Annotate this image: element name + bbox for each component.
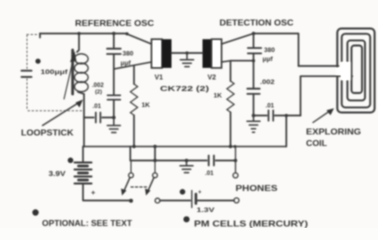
- svg-text:PHONES: PHONES: [236, 183, 278, 193]
- wire bus to phones rail: [129, 147, 131, 161]
- wire loopstick bottom lead: [78, 92, 84, 147]
- transistor V1: [152, 39, 163, 68]
- svg-text:(2): (2): [95, 89, 102, 95]
- capacitor C7 .01 series: [254, 115, 267, 117]
- svg-text:+: +: [91, 188, 96, 197]
- node junction: [112, 116, 116, 120]
- asterisk for C1: [35, 59, 40, 64]
- wire to exploring coil upper: [298, 34, 300, 67]
- node center: [185, 51, 188, 54]
- svg-text:DETECTION OSC: DETECTION OSC: [220, 18, 294, 28]
- node bus S1b riser: [153, 145, 156, 148]
- wire to exploring coil lower: [285, 116, 287, 147]
- asterisk for battery: [68, 158, 74, 164]
- capacitor C2 380uuf: [107, 49, 121, 54]
- wire rail to C2: [113, 34, 115, 48]
- svg-text:.002: .002: [260, 79, 275, 86]
- wire phones rail: [130, 160, 235, 162]
- asterisk for cell: [180, 189, 186, 195]
- resistor R1 1K: [133, 66, 135, 84]
- svg-text:.002: .002: [92, 83, 104, 89]
- coil L1 loopstick top lead: [77, 34, 79, 53]
- resistor R2 1K: [230, 61, 232, 81]
- coil L1 core: [71, 50, 74, 94]
- wire C3 to ground: [113, 100, 115, 117]
- node rail at C5: [252, 32, 255, 35]
- node rail S1b: [153, 159, 156, 162]
- svg-text:.01: .01: [266, 102, 275, 109]
- svg-text:.01: .01: [205, 170, 214, 177]
- node rail end: [125, 32, 128, 35]
- svg-text:380: 380: [123, 51, 134, 58]
- wire V1 upper lead: [127, 34, 152, 44]
- node on rail at loopstick: [77, 32, 80, 35]
- svg-text:OPTIONAL: SEE TEXT: OPTIONAL: SEE TEXT: [42, 218, 133, 228]
- wire C5 to C6: [253, 61, 255, 88]
- wire C6 down: [253, 95, 255, 116]
- wire top rail left: [40, 33, 127, 35]
- capacitor C8 .01 phones: [209, 156, 214, 166]
- wire S1b to cell: [160, 200, 190, 202]
- gap where leads enter: [341, 62, 351, 81]
- capacitor C5 380uuf: [253, 34, 255, 48]
- svg-text:COIL: COIL: [306, 139, 327, 148]
- svg-text:+: +: [198, 190, 202, 196]
- wire between V1 V2: [172, 52, 203, 54]
- wire C2 to C3: [113, 55, 115, 95]
- arrow from LOOPSTICK label: [43, 103, 80, 126]
- svg-text:1K: 1K: [142, 102, 151, 109]
- capacitor C4 .01 series: [84, 117, 94, 119]
- wire base node to cap column: [231, 60, 254, 62]
- svg-text:μμf: μμf: [263, 56, 274, 63]
- coil L1 slug arrow: [64, 58, 74, 99]
- svg-text:.01: .01: [93, 103, 102, 110]
- svg-text:REFERENCE OSC: REFERENCE OSC: [75, 18, 154, 28]
- svg-text:1K: 1K: [214, 92, 223, 99]
- node bus phones riser: [234, 145, 237, 148]
- svg-text:V1: V1: [155, 74, 164, 81]
- wire dashed bottom lead of tuning cap: [27, 79, 82, 111]
- ground right: [247, 116, 260, 133]
- switch S1a: [130, 161, 132, 173]
- node bus R1: [132, 145, 135, 148]
- node at C5 bottom: [252, 59, 255, 62]
- capacitor C6 .002: [247, 89, 259, 94]
- svg-text:V2: V2: [208, 74, 217, 81]
- node at C6 bottom: [252, 114, 256, 118]
- node on rail at C2: [112, 32, 115, 35]
- svg-text:EXPLORING: EXPLORING: [306, 128, 361, 137]
- note pm cells: [183, 216, 189, 222]
- phones jack: [235, 147, 237, 173]
- wire V2 upper lead: [222, 34, 254, 45]
- ground under phones rail: [180, 161, 193, 173]
- ground center: [180, 53, 193, 67]
- svg-text:1.3V: 1.3V: [197, 207, 216, 214]
- battery B2 1.3V: [191, 191, 193, 208]
- svg-text:3.9V: 3.9V: [49, 169, 66, 178]
- wire V1 lower lead: [114, 62, 152, 69]
- switch S1b: [154, 161, 156, 173]
- node rail phones: [234, 159, 237, 162]
- node junction on bus riser: [285, 114, 288, 117]
- exploring coil turns: [337, 29, 374, 113]
- svg-text:380: 380: [264, 47, 275, 54]
- svg-text:100μμf: 100μμf: [41, 69, 69, 76]
- coil leads inside: [299, 65, 339, 67]
- svg-text:LOOPSTICK: LOOPSTICK: [21, 129, 74, 138]
- node bus R2: [229, 145, 232, 148]
- ground under C3: [107, 118, 120, 133]
- svg-text:CK722 (2): CK722 (2): [160, 84, 210, 93]
- wire rail end tick: [39, 34, 41, 38]
- coil L1 windings: [75, 54, 89, 64]
- capacitor C3 .002: [108, 95, 121, 99]
- wire main bus: [83, 146, 286, 148]
- wire V2 lower lead: [222, 61, 231, 62]
- node rail ground: [185, 159, 189, 163]
- wire dashed lead to tuning cap: [27, 35, 39, 69]
- svg-text:PM CELLS (MERCURY): PM CELLS (MERCURY): [194, 219, 308, 228]
- capacitor C1 365/100uuf tuning: [22, 71, 32, 77]
- battery B1 3.9V: [82, 147, 84, 162]
- note optional: [32, 209, 38, 215]
- gang link dashed: [131, 186, 148, 188]
- wire top rail right: [254, 33, 299, 35]
- transistor V2: [203, 39, 212, 68]
- arrow to exploring coil: [313, 111, 330, 123]
